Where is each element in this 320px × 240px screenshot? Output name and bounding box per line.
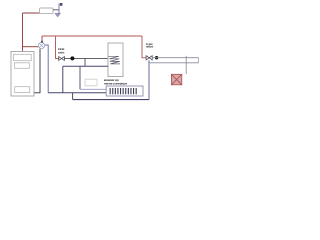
expansion vessel xyxy=(40,8,54,14)
wire: valve outlet to tank coil (dark y58.3) xyxy=(64,57,108,59)
valve V1 (bowtie) xyxy=(59,57,65,61)
valve V2 label xyxy=(146,42,153,49)
check valve dot D2 xyxy=(155,56,158,59)
wire: drop to tank valve (red vertical x55.5) xyxy=(56,36,59,59)
wire: pump outlet to return tee (navy y45 / purple vertical x48.2) xyxy=(45,45,48,93)
wire: floor loop supply (gray y57.6) xyxy=(152,57,198,59)
valve V1 label xyxy=(58,47,65,54)
wire: boiler flow riser (red vertical x22.5) xyxy=(22,13,24,52)
boiler xyxy=(11,52,34,97)
buffer tank xyxy=(108,43,123,77)
mixing pump P1 (circle with X) xyxy=(38,41,44,49)
wire: radiator supply drop (navy vertical x80) xyxy=(79,66,81,89)
tank coil xyxy=(108,56,120,64)
wire: radiator supply run (lavender y89.3) xyxy=(80,88,106,90)
tank label xyxy=(104,78,127,85)
floor sensor (red crossed square) xyxy=(171,74,181,85)
boiler middle door xyxy=(15,63,30,69)
wire: flow main (light red horizontal y35.5) xyxy=(42,35,142,37)
wire: bottom return collector (navy y99.6) xyxy=(73,99,149,101)
wire: return downcomer (navy vertical x62.8) xyxy=(62,66,64,93)
wire: boiler tee to mixing pump (red horizontal y46.7) xyxy=(23,46,39,48)
wire: boiler return (dark vertical x40 down, elbow into boiler) xyxy=(34,49,40,93)
svg-text:rezervoar sa izmenjivacem: rezervoar sa izmenjivacem xyxy=(104,81,127,85)
valve V2 (bowtie) xyxy=(146,56,152,60)
wire: floor loop return (gray y62.8) xyxy=(149,62,199,64)
wire: drop to collector (navy vertical x72.6) xyxy=(72,93,74,100)
wire: vessel to safety valve (gray connector y9.8) xyxy=(53,9,59,11)
check valve dot D1 xyxy=(70,56,74,60)
svg-text:ventil pod.: ventil pod. xyxy=(146,45,153,49)
boiler upper panel xyxy=(14,54,32,60)
wire: coil return (navy y66.3) xyxy=(63,65,108,67)
wire: top run to expansion vessel (red horizontal y13) xyxy=(23,12,40,14)
radiator xyxy=(106,86,143,96)
safety valve SV (vertical body, top outlet, discharge funnel) xyxy=(55,3,63,17)
radiator label box xyxy=(85,79,97,86)
svg-text:ventil m.: ventil m. xyxy=(58,50,65,54)
wire: floor loop end (gray vertical x198.5) xyxy=(198,58,200,63)
boiler lower door xyxy=(15,87,30,93)
wire: thermostat drop (gray vertical x186.2) xyxy=(185,56,187,74)
wire: radiator return run (navy y92.8) xyxy=(48,92,106,94)
wire: radiator supply tee (navy vertical x85) xyxy=(84,58,86,66)
wire: drop to floor valve (red vertical x142) xyxy=(142,36,146,58)
wire: floor return riser (purple vertical x149) xyxy=(148,60,150,99)
wire: pump top to flow main (red vertical x42) xyxy=(41,36,43,42)
